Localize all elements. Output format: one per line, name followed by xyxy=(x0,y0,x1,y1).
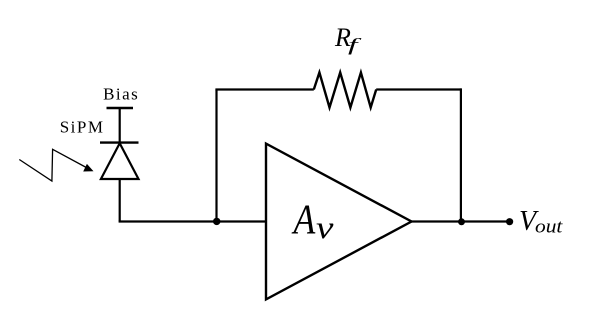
wire feedback top right xyxy=(376,88,461,90)
bias rail xyxy=(107,107,134,109)
photon arrow xyxy=(19,149,93,181)
wire input horizontal xyxy=(119,220,266,222)
wire bias-to-cathode xyxy=(119,108,121,143)
junction node output xyxy=(458,218,465,225)
svg-text:f: f xyxy=(348,35,362,55)
photodiode D1 SiPM cathode bar xyxy=(100,141,139,143)
terminal Vout dot xyxy=(506,218,513,225)
op-amp U1 triangle xyxy=(266,144,412,300)
wire feedback right vertical xyxy=(460,88,462,221)
svg-text:out: out xyxy=(535,217,564,238)
resistor Rf zigzag xyxy=(314,73,376,108)
wire anode-down xyxy=(119,179,121,222)
wire feedback left vertical xyxy=(215,90,217,222)
svg-text:v: v xyxy=(316,209,334,245)
junction node input xyxy=(213,218,220,225)
svg-text:SiPM: SiPM xyxy=(60,118,105,137)
svg-text:Bias: Bias xyxy=(103,85,139,104)
svg-text:A: A xyxy=(291,197,316,243)
photodiode D1 SiPM triangle xyxy=(101,143,139,179)
wire feedback top left xyxy=(215,88,313,90)
wire output xyxy=(412,220,510,222)
